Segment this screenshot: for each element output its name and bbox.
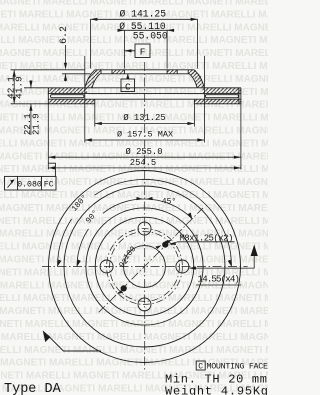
svg-text:Ø 141.25: Ø 141.25 [120,9,167,20]
svg-text:MAGNETI MARELLI MAGNETI MARELL: MAGNETI MARELLI MAGNETI MARELLI MAGNETI … [0,0,268,8]
dim Ø55.110 extension lines [124,30,126,68]
svg-text:MAGNETI MARELLI MAGNETI MARELL: MAGNETI MARELLI MAGNETI MARELLI MAGNETI … [0,306,268,317]
runout feature control frame [5,163,57,190]
svg-text:MAGNETI MARELLI MAGNETI MARELL: MAGNETI MARELLI MAGNETI MARELLI MAGNETI … [0,255,268,266]
svg-text:F: F [140,47,146,58]
mounting face line [100,73,190,75]
dimension arrowheads (section view dims) [13,18,241,170]
svg-text:Type DA: Type DA [4,382,62,395]
M8 circle Ø92 [110,232,180,302]
svg-text:0.080: 0.080 [17,180,42,189]
svg-text:55.050: 55.050 [133,30,168,41]
svg-text:MAGNETI MARELLI MAGNETI MARELL: MAGNETI MARELLI MAGNETI MARELLI MAGNETI … [0,332,268,343]
mounting face extension for 6.2 dim [62,73,90,75]
hatch fills: hat walls [85,70,100,88]
svg-text:21.9: 21.9 [31,113,41,135]
svg-text:6.2: 6.2 [59,26,70,44]
svg-text:41.9: 41.9 [14,76,25,99]
dim Ø141.25 extension lines [89,19,91,68]
hub bore edges in flange [124,70,126,74]
FCF leader [48,163,55,176]
hat inner wall left [92,74,100,88]
dim Ø55.110 line [118,29,174,31]
disc section: friction ring top surface [48,87,241,89]
svg-text:MAGNETI MARELLI MAGNETI MARELL: MAGNETI MARELLI MAGNETI MARELLI MAGNETI … [0,48,268,59]
hat top surface [95,69,194,71]
vent vane left [51,95,85,98]
hat outer wall left [85,70,95,88]
disc section: bottom surface left [48,103,95,105]
outer diameter circle [49,171,241,363]
disc section: vent channel inner surfaces [48,92,241,94]
disc section: bottom surface right [194,103,241,105]
dim 42.1 top extension [11,69,85,71]
hatch fills: hat flange segments [94,70,102,74]
bolt hole left [100,260,113,273]
angle and PCD labels [70,193,176,270]
dim 254.5 line [48,167,241,169]
centerline (disc axis) [144,62,146,370]
front view horizontal centerline [42,266,248,268]
C datum box [121,74,135,92]
svg-text:Ø 157.5 MAX: Ø 157.5 MAX [117,130,173,140]
svg-text:254.5: 254.5 [130,158,156,168]
F datum box [125,44,151,58]
dim Ø157.5 line [85,139,205,141]
dim 6.2 leader line [65,45,67,63]
disc section: OD left edge [47,88,49,104]
braking band circle [64,186,225,347]
90 deg arc [77,229,89,267]
dim Ø255.0 line [48,156,241,158]
bolt hole bottom [138,298,151,311]
svg-text:MAGNETI MARELLI MAGNETI MARELL: MAGNETI MARELLI MAGNETI MARELLI MAGNETI … [0,190,268,201]
hub bore circle [124,246,166,288]
dim 42.1 line [13,70,15,104]
section dimension texts [5,9,173,169]
svg-text:45°: 45° [162,198,176,207]
45 deg arc [145,199,193,219]
dim 42.1 bottom extension [11,103,49,105]
dim Ø131.25 extension lines [94,104,96,127]
M8 service holes [162,242,168,248]
bolt hole top [138,222,151,235]
svg-text:Ø 255.0: Ø 255.0 [126,147,163,157]
dim Ø157.5 extension lines [84,56,86,143]
svg-text:FC: FC [44,180,54,189]
svg-text:14.55(x4): 14.55(x4) [198,274,241,285]
svg-text:C: C [198,362,203,371]
svg-text:MAGNETI MARELLI MAGNETI MARELL: MAGNETI MARELLI MAGNETI MARELLI MAGNETI … [0,61,268,72]
disc section: bottom plate ID edges [94,99,96,104]
bolt circle Ø100 [107,229,183,305]
svg-text:Ø 131.25: Ø 131.25 [123,113,165,123]
rotation arrow lower left [43,330,101,351]
disc section: OD right edge [240,88,242,104]
hat outer wall right [194,70,204,88]
bolt hole right [176,260,189,273]
svg-text:MOUNTING FACE: MOUNTING FACE [207,362,269,372]
svg-text:MAGNETI MARELLI MAGNETI MARELL: MAGNETI MARELLI MAGNETI MARELLI MAGNETI … [0,293,268,304]
braking band inner circle [95,217,194,316]
angle dimension arcs [57,179,231,266]
dim Ø255.0 extension lines [47,104,49,170]
hat inner wall right [189,74,197,88]
leader M8x1.25 [169,233,235,245]
front view circles [49,171,241,363]
svg-text:Weight 4.95Kg: Weight 4.95Kg [165,384,268,395]
vent vane right [205,95,238,98]
hat outer circle [86,208,203,325]
bolt hole edges in flange [100,70,102,74]
C mounting face note [196,361,268,372]
svg-text:C: C [125,81,131,92]
hatch fills: friction ring plates [48,70,241,104]
dim Ø141.25 line [90,18,197,20]
leader 14.55 with rotation arrow [189,245,258,286]
front view 45 degree centerline [99,208,203,312]
dim Ø131.25 line [95,123,195,125]
dim 22.1 line and extension [24,74,66,135]
Ø100 / Ø92 radial arrowheads [165,240,171,244]
svg-text:MAGNETI MARELLI MAGNETI MARELL: MAGNETI MARELLI MAGNETI MARELLI MAGNETI … [0,216,268,227]
180 deg arc [57,219,71,266]
